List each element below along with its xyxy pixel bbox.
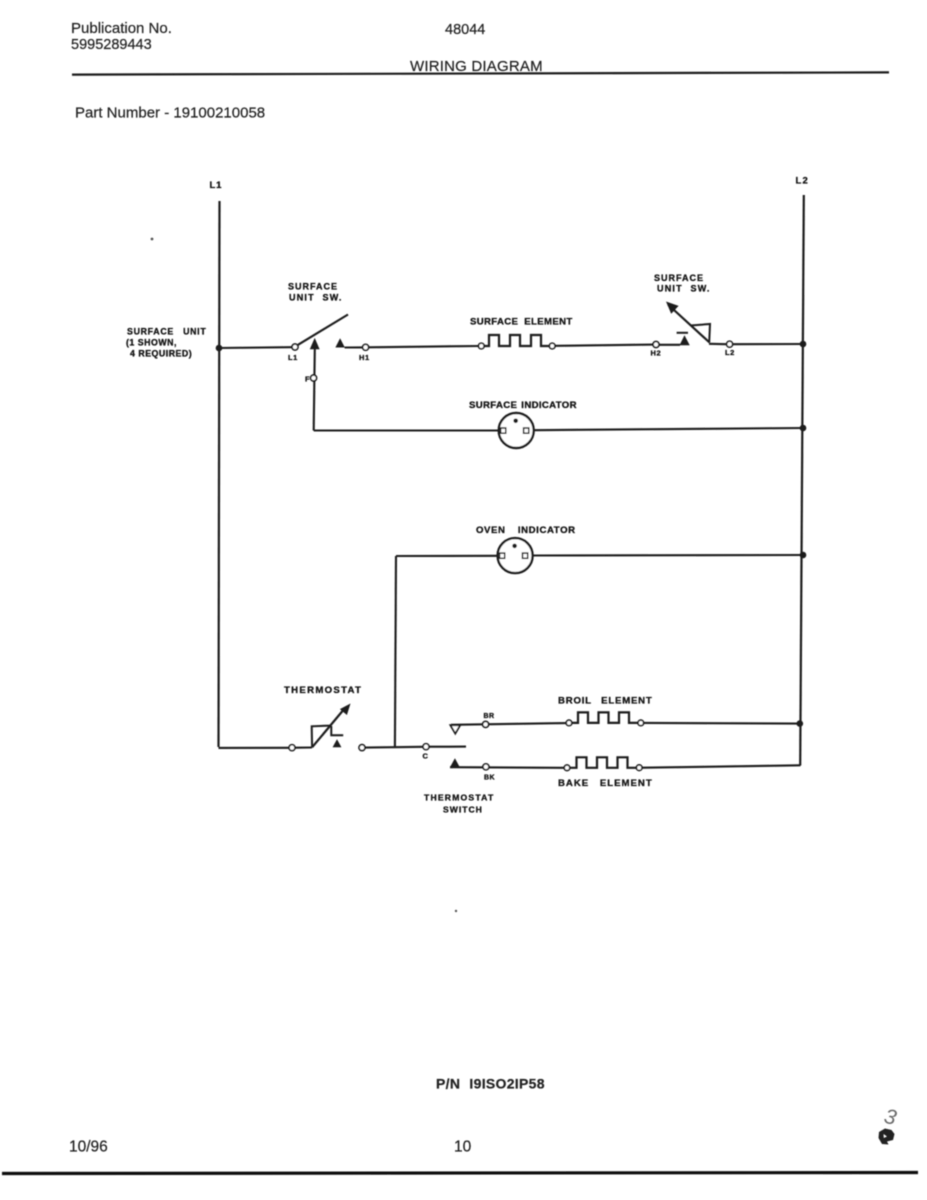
thermostat right terminal (open circle) <box>359 745 365 751</box>
indicator lamp SURFACE INDICATOR (circle) <box>499 413 534 448</box>
thermostat left terminal (open circle) <box>289 745 295 751</box>
switch wedge (outline triangle) <box>691 324 711 343</box>
svg-text:P/N I9ISO2IP58: P/N I9ISO2IP58 <box>436 1076 545 1092</box>
junction L2 oven indicator <box>800 552 807 559</box>
terminal BR (open circle) <box>483 721 489 727</box>
svg-text:Part Number - 19100210058: Part Number - 19100210058 <box>75 105 265 122</box>
svg-text:SURFACE: SURFACE <box>288 282 338 292</box>
wire: bottom bus from L1 <box>219 747 290 749</box>
switch arm (right surface unit sw) <box>668 305 710 343</box>
svg-text:C: C <box>423 752 429 761</box>
label: SURFACE UNIT (1 SHOWN, 4 REQUIRED) <box>126 327 206 359</box>
switch arm arrowhead <box>666 302 679 314</box>
wire: thermostat to C <box>365 746 423 749</box>
svg-text:BR: BR <box>484 713 495 720</box>
wire: L2 vertical bus <box>800 195 804 766</box>
svg-text:BROIL ELEMENT: BROIL ELEMENT <box>558 696 653 707</box>
terminal L2 (open circle) <box>727 341 733 347</box>
switch arm (left surface unit sw) <box>298 315 348 345</box>
svg-text:(1 SHOWN,: (1 SHOWN, <box>126 338 177 348</box>
label THERMOSTAT SWITCH <box>424 793 494 815</box>
broil element left terminal <box>566 720 572 726</box>
svg-text:SURFACE ELEMENT: SURFACE ELEMENT <box>470 317 573 328</box>
contact arrow H1 (solid triangle) <box>335 338 344 347</box>
svg-text:3: 3 <box>882 1105 899 1130</box>
svg-text:10/96: 10/96 <box>69 1139 108 1156</box>
thermostat switch BR contact (outline triangle down) <box>450 725 460 733</box>
terminal H2 (open circle) <box>653 342 659 348</box>
svg-text:UNIT SW.: UNIT SW. <box>657 284 711 294</box>
switch SURFACE UNIT SW. (left) label <box>288 282 343 303</box>
wire: L1 to switch terminal L1 <box>219 346 292 349</box>
junction L2 surface indicator <box>800 425 807 432</box>
svg-text:H1: H1 <box>359 353 370 362</box>
contact bar (right switch) <box>677 332 688 334</box>
wire: H1 to surface element <box>345 346 363 348</box>
contact arrow F (solid triangle) <box>310 338 320 349</box>
wire: wedge to L2 terminal <box>709 343 727 346</box>
wire: terminal to thermostat <box>295 746 312 748</box>
svg-text:H2: H2 <box>651 349 662 358</box>
wire: surface indicator to L2 <box>534 428 803 430</box>
svg-text:THERMOSTAT: THERMOSTAT <box>424 793 494 803</box>
wire: BR branch <box>451 723 566 725</box>
bake element right terminal <box>636 765 642 771</box>
contact arrow (solid triangle, right switch) <box>680 335 690 345</box>
surface element right terminal <box>549 343 555 349</box>
svg-text:UNIT SW.: UNIT SW. <box>289 293 343 303</box>
broil element right terminal <box>638 720 644 726</box>
junction on L1 at surface circuit <box>216 345 223 352</box>
terminal L1 (open circle) <box>292 344 298 350</box>
svg-text:L1: L1 <box>210 180 223 191</box>
wire: element to H2 <box>555 345 653 346</box>
pen blob <box>879 1129 895 1145</box>
wire: oven indicator to L2 <box>533 554 803 557</box>
surface element left terminal <box>479 343 485 349</box>
footer rule <box>2 1173 918 1174</box>
svg-text:BAKE ELEMENT: BAKE ELEMENT <box>558 778 653 789</box>
svg-text:SURFACE INDICATOR: SURFACE INDICATOR <box>469 400 577 411</box>
junction L2 broil <box>797 720 804 727</box>
svg-text:48044: 48044 <box>445 22 485 38</box>
wire: bake to L2 corner <box>642 765 800 767</box>
thermostat arm <box>312 708 345 747</box>
wire: H2 to contact <box>659 344 680 346</box>
svg-text:5995289443: 5995289443 <box>71 37 152 53</box>
wire: broil to L2 <box>644 722 800 725</box>
svg-text:THERMOSTAT: THERMOSTAT <box>284 685 362 696</box>
svg-text:L2: L2 <box>725 348 735 357</box>
svg-text:Publication No.: Publication No. <box>71 20 172 37</box>
terminal H1 (open circle) <box>363 344 369 350</box>
svg-text:F: F <box>305 375 310 384</box>
wire: oven branch vertical <box>395 556 396 748</box>
svg-text:SURFACE: SURFACE <box>654 273 704 283</box>
svg-text:SURFACE UNIT: SURFACE UNIT <box>127 327 206 337</box>
thermostat wedge (outline triangle) <box>312 726 331 748</box>
terminal F (open circle) <box>311 375 317 381</box>
heating element BAKE ELEMENT (square-wave) <box>570 757 636 768</box>
svg-text:SWITCH: SWITCH <box>443 805 483 815</box>
thermostat contact L (vertical+bar) <box>331 726 343 735</box>
terminal C (open circle) <box>423 744 429 750</box>
wire: BK branch <box>450 766 564 769</box>
svg-text:10: 10 <box>454 1139 472 1156</box>
svg-text:L1: L1 <box>288 353 298 362</box>
speck near surface unit label <box>151 238 154 241</box>
speck below diagram <box>455 910 457 912</box>
terminal BK (open circle) <box>483 764 489 770</box>
wire: C to selector common <box>429 746 466 748</box>
wire: L1 vertical bus <box>219 201 220 747</box>
svg-text:4 REQUIRED): 4 REQUIRED) <box>130 349 192 359</box>
svg-text:BK: BK <box>484 775 495 782</box>
indicator lamp OVEN INDICATOR (circle) <box>498 538 533 573</box>
wire: F branch vertical <box>314 347 315 431</box>
bake element left terminal <box>564 765 570 771</box>
heating element SURFACE ELEMENT (square-wave) <box>484 335 549 346</box>
heating element BROIL ELEMENT (square-wave) <box>572 712 638 723</box>
wire: L2 terminal to L2 bus <box>733 343 803 345</box>
thermostat arm arrowhead <box>340 704 351 716</box>
svg-text:OVEN INDICATOR: OVEN INDICATOR <box>476 525 576 536</box>
thermostat contact arrow (solid triangle) <box>333 739 342 747</box>
header rule <box>72 72 889 74</box>
wire: oven indicator left segment <box>396 555 498 557</box>
switch SURFACE UNIT SW. (right) label <box>654 273 711 294</box>
wire: F corner to surface indicator <box>314 429 499 431</box>
thermostat switch BK contact (solid triangle up) <box>450 758 460 767</box>
svg-text:L2: L2 <box>796 176 810 187</box>
junction L2 surface circuit <box>800 341 807 348</box>
